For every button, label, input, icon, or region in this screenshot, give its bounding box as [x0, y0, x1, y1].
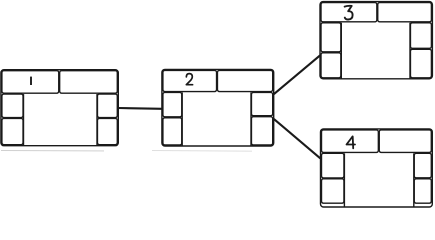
wire node2-node3: [274, 55, 320, 94]
node 1 box: [1, 70, 118, 146]
label 3: [345, 6, 353, 20]
node 2 box: [162, 69, 274, 146]
node 3 box: [320, 2, 432, 79]
scan noise streak under node 2: [152, 150, 252, 153]
label 1: [30, 77, 32, 85]
wire node1-node2: [118, 107, 162, 110]
scan noise streak under node 1: [1, 150, 104, 152]
node 4 box: [321, 129, 433, 207]
wire node2-node4: [274, 119, 321, 158]
label 4: [347, 136, 356, 148]
label 2: [186, 74, 192, 85]
